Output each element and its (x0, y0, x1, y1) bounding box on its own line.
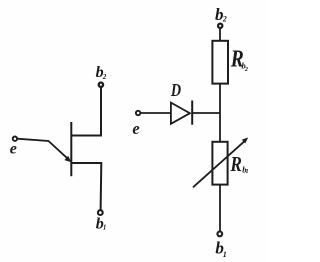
svg-text:e: e (10, 141, 17, 158)
svg-text:D: D (170, 80, 181, 100)
svg-text:2: 2 (244, 66, 249, 73)
svg-text:1: 1 (103, 223, 107, 231)
svg-text:2: 2 (102, 73, 107, 81)
svg-text:2: 2 (222, 14, 227, 23)
svg-text:1: 1 (223, 250, 227, 259)
svg-text:e: e (132, 119, 139, 138)
svg-text:R: R (230, 152, 242, 176)
svg-text:1: 1 (245, 168, 248, 175)
